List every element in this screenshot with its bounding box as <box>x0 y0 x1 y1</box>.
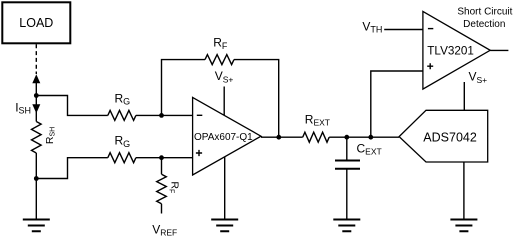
svg-text:Detection: Detection <box>463 19 505 30</box>
svg-text:LOAD: LOAD <box>19 16 53 30</box>
svg-text:ADS7042: ADS7042 <box>423 130 477 144</box>
svg-text:OPAx607-Q1: OPAx607-Q1 <box>194 132 253 143</box>
svg-text:Short Circuit: Short Circuit <box>457 6 512 17</box>
svg-text:TLV3201: TLV3201 <box>427 44 474 57</box>
